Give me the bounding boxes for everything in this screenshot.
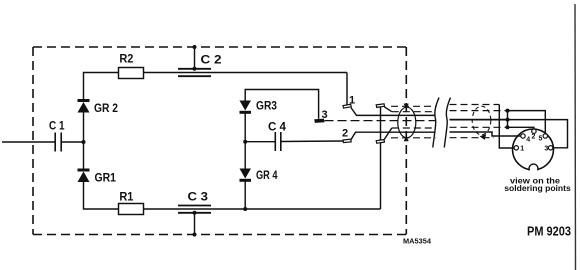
wire GR2 up to top rail corner [84, 73, 119, 101]
capacitor C4 [268, 120, 286, 152]
diode GR2 [78, 101, 119, 116]
wire lug1-right to conductor [384, 107, 392, 112]
resistor R2 [119, 52, 144, 79]
shield box dashed left edge [32, 47, 34, 235]
cable conductor solid to junction [450, 119, 508, 121]
contact lug 3 [315, 119, 324, 122]
dashed conductor from lug1 right [392, 111, 436, 113]
lead-through capacitor C2 [178, 53, 222, 77]
svg-text:GR 2: GR 2 [94, 101, 118, 115]
cable jacket dashed top left section [391, 105, 436, 107]
cable conductor solid to pin 4 [450, 132, 521, 136]
node B junction dot [243, 140, 247, 144]
svg-text:5: 5 [539, 136, 543, 143]
C2 stub to shield [194, 47, 196, 69]
top rail wire through C2 [144, 72, 348, 74]
contact lug 1 left [343, 104, 351, 108]
wire junction to pin 2 [508, 127, 534, 129]
svg-text:MA5354: MA5354 [403, 239, 431, 246]
DIN pin 4 [521, 134, 525, 138]
junction dot bus 3 [506, 125, 510, 129]
wire node A up to GR2 [83, 113, 85, 143]
svg-text:1: 1 [520, 146, 524, 153]
svg-text:GR 4: GR 4 [256, 168, 278, 182]
capacitor C1 [49, 119, 65, 152]
wire C4 to contact 2 [281, 140, 343, 143]
junction dot C2 top plate [193, 67, 197, 71]
wire node A down to GR1 [83, 142, 85, 171]
cable conductor dashed to junction [450, 110, 508, 112]
DIN pin 5 [543, 134, 547, 138]
cable break slash left [433, 98, 439, 148]
DIN plug key notch [529, 164, 538, 173]
shield box dashed right edge [405, 47, 407, 235]
diode GR3 [240, 99, 278, 113]
screen arrow at connector end [480, 134, 487, 140]
diode GR4 [240, 168, 278, 182]
screen connection triangle top [404, 104, 409, 109]
DIN pin 3 [548, 146, 552, 150]
cable bus vertical [507, 111, 509, 128]
resistor R1 [119, 190, 144, 215]
wire GR4 down to bottom rail [244, 180, 246, 209]
contact lug 1 right [376, 104, 384, 108]
junction dot bus 2 [506, 118, 510, 122]
svg-text:2: 2 [342, 128, 348, 140]
wire lug2-right to conductor [384, 128, 392, 139]
lead-through capacitor C3 [178, 190, 211, 213]
wire bottom rail up to contact lugs [380, 107, 382, 210]
wire node B to C4 [245, 141, 275, 143]
svg-text:R2: R2 [119, 52, 133, 66]
svg-text:C 4: C 4 [268, 120, 286, 134]
input lead wire [2, 141, 55, 143]
shield box dashed top edge [33, 46, 406, 48]
svg-text:GR3: GR3 [256, 99, 277, 113]
svg-text:C 3: C 3 [188, 190, 209, 204]
svg-text:3: 3 [544, 146, 548, 153]
junction dot C3 on shield border [193, 233, 197, 237]
wire lug2 to conductor [351, 132, 436, 140]
cable break slash right [444, 98, 450, 148]
node A junction dot [82, 140, 86, 144]
svg-text:C 1: C 1 [49, 119, 65, 133]
cable screen ellipse [398, 107, 416, 138]
junction dot C2 on shield border [193, 45, 197, 49]
cable jacket dashed bottom right section [450, 137, 495, 139]
svg-text:4: 4 [526, 137, 530, 144]
wire junction to pin 5 [508, 111, 546, 134]
shield box dashed bottom edge [33, 234, 406, 236]
wire GR1 down to bottom rail corner [84, 182, 119, 209]
svg-text:2: 2 [532, 134, 536, 141]
DIN plug body circle [513, 129, 554, 170]
wire C1 to node A [61, 141, 83, 143]
DIN pin 1 [514, 146, 518, 150]
wire lug1 to conductor [351, 108, 436, 116]
svg-text:C 2: C 2 [201, 53, 222, 67]
cable jacket dashed top right section [450, 104, 500, 106]
diode GR1 [78, 170, 117, 185]
junction dot bus 1 [506, 109, 510, 113]
wire GR3 to node B [244, 112, 246, 168]
svg-text:GR1: GR1 [95, 171, 117, 185]
svg-text:PM 9203: PM 9203 [527, 224, 571, 239]
svg-text:soldering points: soldering points [504, 184, 571, 193]
dashed conductor from lug2 right [392, 127, 436, 129]
C3 stub to shield [194, 213, 196, 235]
contact lug 2 left [343, 139, 351, 142]
cable conductor dashed to junction [450, 126, 508, 128]
junction dot GR4 bottom rail [243, 207, 247, 211]
wire GR3 branch top corner [245, 90, 318, 119]
cable jacket dashed bottom left section [391, 137, 436, 139]
contact lug 2 right [376, 140, 384, 144]
screen connection triangle bottom [404, 136, 409, 141]
wire top rail down to contact 1 [346, 73, 348, 105]
svg-text:R1: R1 [119, 190, 133, 204]
junction dot C3 bottom plate [193, 211, 197, 215]
wire junction to pin 3 [508, 120, 568, 148]
DIN pin 2 [532, 129, 536, 133]
bottom rail wire through C3 [144, 208, 381, 210]
page border line [574, 4, 577, 270]
wire jacket to pin 1 [499, 105, 514, 149]
shield conductor dashed from lug 3 [325, 120, 436, 122]
connector screen ellipse dashed [472, 106, 491, 135]
